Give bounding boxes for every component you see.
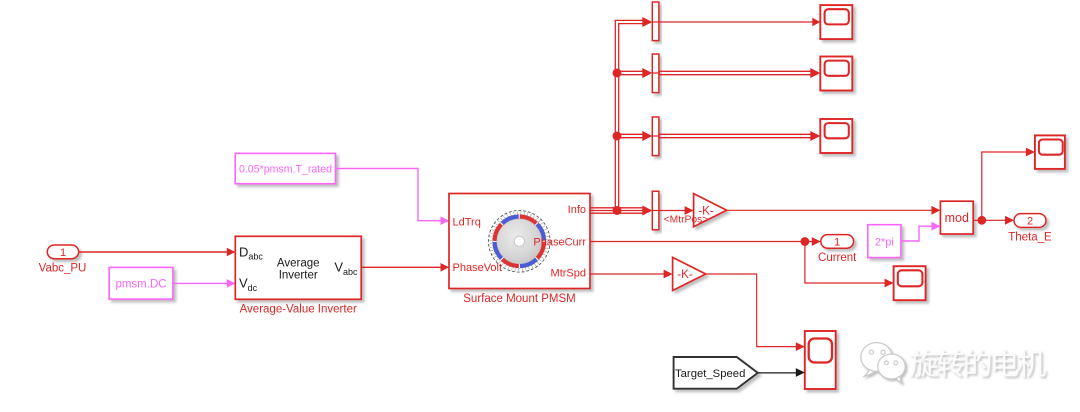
- selector bar 1: [652, 2, 659, 41]
- wire bar3 to scope3 (double): [659, 134, 812, 137]
- wire PhaseCurr down to scope: [805, 242, 894, 288]
- constant pmsm.DC: [109, 267, 173, 299]
- svg-text:Inverter: Inverter: [279, 269, 318, 281]
- watermark wechat logo: [861, 343, 905, 383]
- svg-text:Current: Current: [818, 252, 857, 264]
- wire bar4 to gain MtrPos: [659, 206, 694, 215]
- svg-text:pmsm.DC: pmsm.DC: [115, 279, 166, 291]
- svg-text:PhaseVolt: PhaseVolt: [453, 262, 503, 274]
- scope current: [894, 266, 926, 300]
- scope 3: [820, 119, 852, 153]
- junction after mod: [977, 216, 986, 225]
- svg-text:1: 1: [60, 247, 66, 259]
- svg-text:-K-: -K-: [677, 268, 693, 281]
- wire gain to tall scope: [706, 274, 805, 351]
- junction PhaseCurr: [801, 237, 810, 246]
- svg-text:2: 2: [1027, 216, 1033, 228]
- constant 2*pi: [868, 225, 901, 258]
- constant 0.05*pmsm.T_rated: [235, 153, 335, 183]
- wire MtrSpd to gain: [590, 270, 673, 279]
- svg-text:Surface Mount PMSM: Surface Mount PMSM: [463, 293, 575, 305]
- svg-text:Vabc_PU: Vabc_PU: [39, 263, 87, 275]
- outport 1 Current: [818, 235, 857, 264]
- block mod: [940, 201, 973, 234]
- selector bar 4: [652, 191, 659, 230]
- arrowhead into selector bar 1: [642, 17, 652, 27]
- arrowhead into selector bar 2: [642, 68, 652, 78]
- scope tall (speed): [805, 331, 836, 389]
- svg-text:mod: mod: [945, 211, 969, 225]
- svg-text:MtrSpd: MtrSpd: [551, 267, 586, 279]
- wire through selector bars: [652, 22, 661, 211]
- junction Info bus: [613, 206, 622, 215]
- junction bus branch 3: [613, 132, 622, 141]
- motor icon inside PMSM: [489, 211, 551, 273]
- wire mod junction up to scope: [982, 148, 1035, 221]
- svg-text:1: 1: [834, 236, 840, 248]
- selector bar 3: [652, 117, 659, 156]
- wire gain MtrPos to mod: [727, 206, 941, 215]
- wire bar1 to scope1: [659, 18, 820, 26]
- arrowhead into selector bar 4: [642, 206, 652, 216]
- svg-text:<MtrPos>: <MtrPos>: [664, 214, 709, 225]
- gain -K- speed: [673, 257, 706, 290]
- selector bar 2: [652, 54, 659, 93]
- block Average-Value Inverter: [235, 236, 361, 315]
- svg-text:Target_Speed: Target_Speed: [675, 368, 745, 380]
- junction bus branch 2: [613, 69, 622, 78]
- PMSM port labels: [453, 204, 587, 305]
- inport 1 Vabc_PU: [39, 245, 87, 275]
- tag Target_Speed: [674, 357, 758, 389]
- wire Info bus horizontal (triple line): [590, 208, 645, 213]
- svg-text:Average-Value Inverter: Average-Value Inverter: [240, 303, 357, 315]
- scope top-right: [1035, 135, 1065, 169]
- svg-text:Info: Info: [568, 204, 586, 216]
- wire PhaseCurr to Current: [590, 237, 821, 246]
- svg-text:Average: Average: [277, 258, 320, 270]
- svg-text:Theta_E: Theta_E: [1008, 231, 1052, 243]
- wire bus branch 3: [616, 134, 645, 137]
- wire bar2 to scope2 (double): [659, 71, 812, 74]
- svg-text:PhaseCurr: PhaseCurr: [533, 236, 586, 248]
- wire bus vertical riser: [615, 20, 645, 209]
- block Surface Mount PMSM: [449, 194, 590, 289]
- svg-text:LdTrq: LdTrq: [453, 217, 481, 229]
- wire bus branch 2: [616, 71, 645, 74]
- wire Vabc_PU to D_abc: [79, 248, 236, 257]
- wire pmsm.DC to V_dc: [173, 279, 235, 288]
- wire Target_Speed to scope: [758, 368, 805, 377]
- wire V_abc to PhaseVolt: [361, 263, 449, 272]
- svg-text:0.05*pmsm.T_rated: 0.05*pmsm.T_rated: [239, 163, 332, 175]
- scope 1: [820, 5, 852, 39]
- arrowhead into selector bar 3: [642, 131, 652, 141]
- scope 2: [820, 57, 852, 91]
- wire 0.05*pmsm.T_rated to LdTrq: [336, 169, 450, 226]
- wire mod to Theta_E: [973, 216, 1014, 225]
- watermark text: [910, 349, 1046, 377]
- gain <MtrPos>: [664, 194, 727, 227]
- svg-text:2*pi: 2*pi: [875, 236, 894, 248]
- wire 2*pi to mod: [901, 222, 941, 241]
- outport 2 Theta_E: [1008, 214, 1052, 244]
